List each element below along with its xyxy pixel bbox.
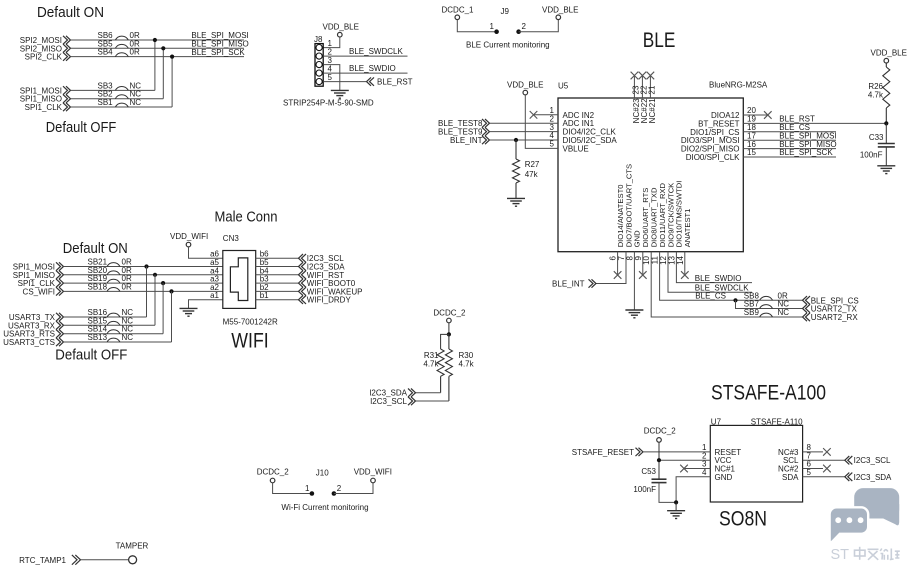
svg-text:0R: 0R <box>122 282 132 291</box>
wire C33 to ground <box>885 147 887 166</box>
wire SPI1_CLK row <box>71 106 173 108</box>
off-page connector WIFI_RST <box>299 271 307 279</box>
wire R26 to C33 <box>885 123 887 143</box>
svg-text:15: 15 <box>747 148 756 157</box>
wire BLE_INT <box>490 139 559 141</box>
junction dot SB19 row <box>161 281 165 285</box>
wire vertical join SB19 <box>162 283 164 334</box>
wire USART3_CTS row <box>64 341 172 343</box>
off-page connector SPI1_MOSI <box>63 86 71 94</box>
svg-text:BLE_INT: BLE_INT <box>552 280 585 289</box>
svg-text:4: 4 <box>702 468 707 477</box>
off-page connector I2C3_SCL (U7) <box>845 456 853 464</box>
svg-text:Default OFF: Default OFF <box>46 120 117 136</box>
watermark speech bubble front <box>830 507 869 542</box>
solder bridge SB14 arc <box>107 330 120 334</box>
svg-text:J10: J10 <box>316 469 329 478</box>
wire GND pin4 <box>676 477 710 503</box>
junction dot DCDC_2/VCC <box>657 458 661 462</box>
wire WIFI_RST row <box>256 274 299 276</box>
svg-text:GND: GND <box>715 473 733 482</box>
wire pin12 BLE_SWDCLK <box>668 252 752 293</box>
junction dot 3 <box>170 55 174 59</box>
svg-text:BLE_CS: BLE_CS <box>695 292 726 301</box>
solder bridge SB4 arc <box>115 53 128 57</box>
wire CS_WIFI row (WIFI) <box>64 290 223 292</box>
solder bridge SB1 arc <box>115 103 128 107</box>
wire SPI1_MOSI row (WIFI) <box>64 266 223 268</box>
off-page connector I2C3_SCL <box>299 254 307 262</box>
svg-text:2: 2 <box>522 22 527 31</box>
off-page connector CS_WIFI (WIFI) <box>56 287 64 295</box>
U5 top pin 21 stub <box>649 76 651 99</box>
svg-text:VDD_BLE: VDD_BLE <box>507 81 543 90</box>
wire vertical SPI1-SPI2 join 1 <box>154 40 156 90</box>
svg-text:CN3: CN3 <box>223 234 240 243</box>
off-page connector BLE_RST (J8) <box>367 77 375 85</box>
svg-text:BlueNRG-M2SA: BlueNRG-M2SA <box>709 81 768 90</box>
svg-text:0R: 0R <box>130 48 140 57</box>
svg-text:DIO0/SPI_CLK: DIO0/SPI_CLK <box>686 153 740 162</box>
wire VDD_BLE to VBLUE <box>525 95 558 148</box>
solder bridge SB8 arc <box>760 296 773 300</box>
wire vertical join SB21 <box>146 267 148 318</box>
J10 pin 1 <box>310 491 315 496</box>
svg-text:STSAFE-A100: STSAFE-A100 <box>711 382 826 405</box>
off-page connector BLE_SPI_CS <box>803 296 811 304</box>
ground (U7) <box>667 511 685 519</box>
J9 pin 2 <box>516 29 521 34</box>
wire vertical SPI1-SPI2 join 2 <box>162 48 164 98</box>
watermark glyph wen <box>868 549 879 560</box>
off-page connector BLE_TEST8 <box>482 119 490 127</box>
U5 top pin 23 stub <box>633 76 635 99</box>
solder bridge SB21 arc <box>107 263 120 267</box>
svg-text:5: 5 <box>807 468 812 477</box>
off-page connector STSAFE_RESET <box>636 448 644 456</box>
svg-text:VDD_BLE: VDD_BLE <box>542 6 578 15</box>
off-page connector USART3_RX <box>56 321 64 329</box>
svg-text:Default OFF: Default OFF <box>55 348 127 364</box>
svg-text:M55-7001242R: M55-7001242R <box>223 318 278 327</box>
off-page connector SPI1_MOSI (WIFI) <box>56 262 64 270</box>
svg-text:NC: NC <box>130 98 142 107</box>
off-page connector USART3_TX <box>56 313 64 321</box>
wire SDA to I2C3_SDA <box>803 476 845 478</box>
wire BLE_SPI_MOSI stub <box>743 139 836 141</box>
wire USART3_RX row <box>64 324 156 326</box>
svg-text:DCDC_2: DCDC_2 <box>433 309 466 318</box>
wire SPI2_MOSI row <box>71 39 245 41</box>
svg-text:DCDC_1: DCDC_1 <box>442 6 475 15</box>
U7 pin8 no-connect stub <box>803 451 823 453</box>
solder bridge SB2 arc <box>115 95 128 99</box>
junction dot SB18 row <box>169 289 173 293</box>
svg-text:VDD_BLE: VDD_BLE <box>871 49 907 58</box>
svg-text:TAMPER: TAMPER <box>116 541 149 550</box>
svg-text:DCDC_2: DCDC_2 <box>644 426 677 435</box>
off-page connector BLE_INT <box>482 136 490 144</box>
solder bridge SB3 arc <box>115 87 128 91</box>
wire BLE_TEST8 <box>490 122 559 124</box>
off-page connector I2C3_SDA (U7) <box>845 473 853 481</box>
connector CN3 key profile <box>230 258 247 301</box>
wire I2C3_SDA row <box>256 266 299 268</box>
junction dot SB21 row <box>144 264 148 268</box>
junction dot BLE_RST/R26/C33 <box>884 121 888 125</box>
wire vertical join SB20 <box>154 275 156 326</box>
wire USART3_TX row <box>64 316 147 318</box>
off-page connector I2C3_SDA <box>299 262 307 270</box>
off-page connector SPI1_CLK (WIFI) <box>56 279 64 287</box>
resistor R30 <box>448 334 450 349</box>
junction dot BLE_CS/SB7 <box>733 298 737 302</box>
wire BLE_SPI_MISO stub <box>743 148 836 150</box>
svg-text:100nF: 100nF <box>860 151 883 160</box>
svg-text:SB1: SB1 <box>98 98 114 107</box>
svg-text:4.7k: 4.7k <box>459 360 475 369</box>
svg-text:USART2_RX: USART2_RX <box>811 313 859 322</box>
connector J8 body <box>315 44 323 87</box>
ground (R27) <box>507 198 525 206</box>
svg-text:BLE_SWDCLK: BLE_SWDCLK <box>349 47 403 56</box>
svg-text:USART3_CTS: USART3_CTS <box>3 338 55 347</box>
svg-text:47k: 47k <box>525 170 539 179</box>
svg-text:BLE_SPI_SCK: BLE_SPI_SCK <box>779 148 833 157</box>
svg-text:BLE: BLE <box>643 29 676 52</box>
J10 pin 2 <box>332 491 337 496</box>
off-page connector SPI2_MOSI <box>63 36 71 44</box>
off-page connector SPI1_MISO (WIFI) <box>56 271 64 279</box>
off-page connector WIFI_WAKEUP <box>299 287 307 295</box>
svg-text:DCDC_2: DCDC_2 <box>257 468 290 477</box>
svg-text:SB18: SB18 <box>88 282 108 291</box>
wire BLE_CS stub <box>743 131 836 133</box>
svg-text:SO8N: SO8N <box>719 508 767 531</box>
J9 pin 1 <box>494 29 499 34</box>
svg-text:SPI2_CLK: SPI2_CLK <box>25 53 63 62</box>
off-page connector RTC_TAMP1 <box>72 555 81 565</box>
svg-text:5: 5 <box>328 73 333 82</box>
off-page connector BLE_TEST9 <box>482 127 490 135</box>
svg-text:VDD_WIFI: VDD_WIFI <box>354 468 392 477</box>
svg-text:SDA: SDA <box>782 473 799 482</box>
wire J8 pin4 BLE_SWDIO <box>323 72 407 74</box>
U7 pin6 no-connect stub <box>803 468 823 470</box>
wire J8 pin2 BLE_SWDCLK <box>323 55 407 57</box>
svg-text:CS_WIFI: CS_WIFI <box>23 287 55 296</box>
svg-text:14: 14 <box>676 255 685 264</box>
resistor R27 <box>515 140 517 159</box>
junction dot R31/R30 <box>447 332 451 336</box>
U7 pin3 no-connect stub <box>684 468 710 470</box>
watermark glyph zhong <box>855 547 866 560</box>
watermark glyph lun <box>880 549 888 560</box>
solder bridge SB9 arc <box>760 313 773 317</box>
U5 top pin 22 stub <box>641 76 643 99</box>
ground (CN3) <box>180 308 198 316</box>
ground (C33) <box>877 166 895 174</box>
junction dot BLE_INT/R27 <box>514 138 518 142</box>
wire SPI1_MISO row (WIFI) <box>64 274 223 276</box>
U5 pin9 no-connect stub <box>642 252 644 275</box>
wire SPI2_MISO row <box>71 47 245 49</box>
svg-text:NC#21: NC#21 <box>648 98 657 123</box>
wire WIFI_DRDY row <box>256 299 299 301</box>
svg-text:RTC_TAMP1: RTC_TAMP1 <box>19 556 66 565</box>
solder bridge SB18 arc <box>107 288 120 292</box>
wire vertical SPI1-SPI2 join 3 <box>171 57 173 107</box>
solder bridge SB20 arc <box>107 271 120 275</box>
wire pin13 BLE_SWDIO <box>676 252 752 283</box>
svg-text:BLE_SPI_SCK: BLE_SPI_SCK <box>191 48 245 57</box>
svg-text:I2C3_SDA: I2C3_SDA <box>854 473 892 482</box>
wire BLE_INT to pin7 <box>596 252 626 284</box>
svg-text:R27: R27 <box>525 160 540 169</box>
svg-text:b1: b1 <box>260 291 269 300</box>
svg-text:I2C3_SCL: I2C3_SCL <box>370 397 407 406</box>
svg-text:2: 2 <box>337 484 342 493</box>
svg-text:1: 1 <box>490 22 495 31</box>
off-page connector BLE_INT (bottom) <box>589 279 597 287</box>
capacitor C53 <box>652 479 667 482</box>
connector CN3 body <box>223 251 256 309</box>
wire SCL to I2C3_SCL <box>803 459 845 461</box>
wire junction to SB7 row <box>736 300 803 308</box>
wire R30 to I2C3_SCL <box>416 400 449 402</box>
off-page connector USART3_RTS <box>56 330 64 338</box>
wire J8 pin5 BLE_RST <box>323 81 366 83</box>
wire DCDC_2 stem <box>448 323 450 335</box>
off-page connector WIFI_BOOT0 <box>299 279 307 287</box>
svg-text:BLE Current monitoring: BLE Current monitoring <box>466 41 550 50</box>
off-page connector I2C3_SCL (pull-up) <box>408 397 416 405</box>
solder bridge SB19 arc <box>107 279 120 283</box>
svg-text:J8: J8 <box>314 35 323 44</box>
IC U5 body <box>558 98 743 252</box>
svg-text:VDD_BLE: VDD_BLE <box>323 23 359 32</box>
svg-text:J9: J9 <box>501 7 510 16</box>
solder bridge SB15 arc <box>107 321 120 325</box>
off-page connector WIFI_DRDY <box>299 296 307 304</box>
wire WIFI_BOOT0 row <box>256 282 299 284</box>
junction dot 1 <box>153 38 157 42</box>
svg-text:4.7k: 4.7k <box>868 91 884 100</box>
svg-text:I2C3_SCL: I2C3_SCL <box>854 456 891 465</box>
wire DCDC_2 to VCC <box>658 442 660 479</box>
U5 pin1 no-connect stub <box>534 114 559 116</box>
wire VCC stub <box>659 459 710 461</box>
solder bridge SB5 arc <box>115 44 128 48</box>
off-page connector SPI1_MISO <box>63 95 71 103</box>
wire VDD_WIFI to a6 <box>189 247 223 258</box>
solder bridge SB16 arc <box>107 313 120 317</box>
svg-text:C33: C33 <box>869 133 884 142</box>
wire SPI1_MOSI row <box>71 89 155 91</box>
wire VDD_BLE to J8 pin1 <box>323 37 340 48</box>
svg-text:4.7k: 4.7k <box>423 360 439 369</box>
svg-text:BLE_INT: BLE_INT <box>450 136 483 145</box>
wire pin10 to SB9 row <box>651 252 802 317</box>
off-page connector USART2_RX <box>803 313 811 321</box>
svg-text:C53: C53 <box>641 467 656 476</box>
solder bridge SB6 arc <box>115 36 128 40</box>
junction dot SB20 row <box>153 273 157 277</box>
svg-text:BLE_RST: BLE_RST <box>377 78 413 87</box>
resistor R26 <box>885 63 887 67</box>
wire a1 to ground <box>189 300 223 309</box>
svg-text:100nF: 100nF <box>633 485 656 494</box>
wire J10 left <box>273 483 312 494</box>
wire BLE_RST to R26 <box>743 122 886 124</box>
wire SPI1_CLK row (WIFI) <box>64 282 223 284</box>
svg-text:WIFI_DRDY: WIFI_DRDY <box>307 296 352 305</box>
svg-text:Default ON: Default ON <box>37 5 104 21</box>
off-page connector SPI1_CLK <box>63 103 71 111</box>
svg-text:BLE_SWDIO: BLE_SWDIO <box>349 64 396 73</box>
wire WIFI_WAKEUP row <box>256 290 299 292</box>
svg-text:Male Conn: Male Conn <box>215 210 278 226</box>
svg-text:ANATEST1: ANATEST1 <box>683 209 692 248</box>
svg-text:R31: R31 <box>424 351 439 360</box>
off-page connector SPI2_CLK <box>63 52 71 60</box>
U5 pin6 no-connect stub <box>617 252 619 275</box>
wire pin11 to SB8 row <box>660 252 803 301</box>
ground (J8) <box>331 90 349 98</box>
U5 pin14 no-connect stub <box>684 252 686 275</box>
svg-text:a1: a1 <box>210 291 219 300</box>
svg-text:Wi-Fi Current monitoring: Wi-Fi Current monitoring <box>281 503 368 512</box>
svg-text:R30: R30 <box>459 351 474 360</box>
capacitor C33 <box>878 144 895 147</box>
junction dot GND/C53 <box>674 500 678 504</box>
wire pin8 GND <box>633 252 635 310</box>
wire J8 pin3 to ground <box>323 65 340 91</box>
wire USART3_RTS row <box>64 333 164 335</box>
off-page connector USART3_CTS <box>56 338 64 346</box>
svg-text:NC: NC <box>778 308 790 317</box>
solder bridge SB13 arc <box>107 338 120 342</box>
wire RTC_TAMP1 to TAMPER <box>81 559 129 561</box>
wire ground stem (U7) <box>675 502 677 510</box>
svg-text:BLE_SWDIO: BLE_SWDIO <box>695 274 742 283</box>
wire J9 left <box>457 20 496 32</box>
svg-text:VDD_WIFI: VDD_WIFI <box>170 232 208 241</box>
svg-text:ST: ST <box>831 547 850 563</box>
svg-text:1: 1 <box>305 484 310 493</box>
watermark speech bubble back <box>854 488 899 518</box>
wire R31 to I2C3_SDA <box>416 392 441 394</box>
svg-text:VBLUE: VBLUE <box>563 144 589 153</box>
wire C53 to ground <box>659 483 676 503</box>
svg-text:21: 21 <box>647 85 656 94</box>
watermark ellipsis dots <box>835 517 863 523</box>
svg-text:SB13: SB13 <box>88 333 108 342</box>
watermark glyph tan <box>890 549 900 560</box>
wire I2C3_SCL row <box>256 257 299 259</box>
svg-text:STSAFE_RESET: STSAFE_RESET <box>572 448 634 457</box>
wire SPI2_CLK row <box>71 56 245 58</box>
solder bridge SB7 arc <box>760 305 773 309</box>
wire SPI1_MISO row <box>71 98 164 100</box>
svg-text:5: 5 <box>550 140 555 149</box>
wire BLE_SPI_SCK stub <box>743 156 836 158</box>
IC U7 body <box>710 425 802 502</box>
ground (U5 GND) <box>625 310 643 318</box>
svg-text:NC: NC <box>122 333 134 342</box>
svg-text:Default ON: Default ON <box>63 241 128 257</box>
svg-text:SB9: SB9 <box>744 308 760 317</box>
wire vertical join SB18 <box>171 291 173 342</box>
resistor R31 <box>441 334 449 349</box>
U5 pin20 no-connect stub <box>743 114 768 116</box>
wire BLE_TEST9 <box>490 131 559 133</box>
svg-text:STRIP254P-M-5-90-SMD: STRIP254P-M-5-90-SMD <box>283 99 374 108</box>
off-page connector I2C3_SDA (pull-up) <box>408 389 416 397</box>
junction dot 2 <box>161 46 165 50</box>
svg-text:WIFI: WIFI <box>231 330 268 353</box>
svg-text:SB4: SB4 <box>98 48 114 57</box>
wire J9 right <box>519 20 559 32</box>
off-page connector SPI2_MISO <box>63 44 71 52</box>
wire STSAFE_RESET to pin1 <box>643 451 710 453</box>
svg-text:SPI1_CLK: SPI1_CLK <box>25 103 63 112</box>
terminal TAMPER <box>129 556 137 564</box>
svg-text:U5: U5 <box>558 82 569 91</box>
off-page connector USART2_TX <box>803 304 811 312</box>
wire J10 right <box>334 483 373 494</box>
